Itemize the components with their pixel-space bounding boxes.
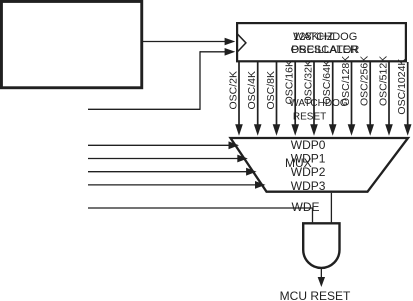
svg-text:WDE: WDE — [292, 200, 320, 214]
svg-text:RESET: RESET — [293, 111, 326, 122]
svg-text:MCU RESET: MCU RESET — [280, 289, 351, 301]
wire: mux output to gate — [330, 193, 332, 223]
wire: WDP2 select input — [88, 171, 248, 173]
wire: oscillator output to prescaler clock input — [143, 41, 227, 43]
wire: tap OSC/2K — [238, 62, 240, 126]
arrowhead: MCU reset — [318, 277, 325, 287]
arrowhead into prescaler clock input — [225, 38, 236, 46]
svg-text:OSC/4K: OSC/4K — [246, 71, 258, 110]
wire: tap OSC/512K — [388, 62, 390, 126]
wire: WDP0 select input — [88, 144, 230, 146]
svg-text:OSC/2K: OSC/2K — [228, 71, 240, 110]
wire: tap OSC/4K — [257, 62, 259, 126]
mux MUX1 trapezoid — [231, 138, 409, 192]
svg-text:OSC/1024K: OSC/1024K — [396, 59, 408, 115]
and-gate G1 (pointing down) — [303, 223, 339, 268]
wire: tap OSC/128K — [351, 62, 353, 126]
wire: gate output — [320, 269, 322, 279]
prescaler output arrows OSC taps — [235, 62, 411, 136]
wire: tap OSC/256K — [369, 62, 371, 126]
watchdog prescaler box U2 — [237, 23, 406, 61]
wire: WDP3 select input — [88, 184, 257, 186]
wire: second feed, horizontal into prescaler — [200, 51, 226, 53]
arrowhead of second feed — [225, 48, 236, 56]
oscillator box U1 (empty) — [1, 1, 141, 87]
svg-text:OSC/512K: OSC/512K — [378, 56, 390, 106]
wire: WDE stub down to gate — [312, 208, 314, 222]
svg-text:OSCILLATOR: OSCILLATOR — [291, 44, 360, 56]
wire: tap OSC/16K — [294, 62, 296, 126]
wire: tap OSC/32K — [313, 62, 315, 126]
svg-text:WATCHDOG: WATCHDOG — [289, 98, 348, 109]
svg-text:OSC/8K: OSC/8K — [265, 71, 277, 110]
wire: tap OSC/8K — [276, 62, 278, 126]
wire: tap OSC/1024K — [407, 62, 409, 126]
svg-text:WDP3: WDP3 — [291, 179, 326, 193]
svg-text:OSC/256K: OSC/256K — [359, 56, 371, 106]
wire: second feed, vertical segment — [199, 51, 201, 110]
svg-text:WDP0: WDP0 — [291, 138, 326, 152]
wire: second feed, horizontal segment at bottom — [88, 108, 200, 110]
svg-text:MUX: MUX — [285, 156, 312, 170]
wire: tap OSC/64K — [332, 62, 334, 126]
svg-text:128KHZ: 128KHZ — [293, 31, 334, 43]
wire: WDP1 select input — [88, 158, 239, 160]
clock input wedge on prescaler — [238, 34, 246, 51]
wire: WDE enable line — [88, 207, 313, 209]
